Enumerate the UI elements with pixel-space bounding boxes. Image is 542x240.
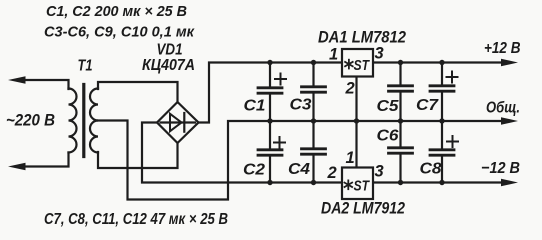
regulator DA1 asterisk bbox=[345, 60, 353, 69]
wire DA1 pin 2 to common bbox=[355, 77, 357, 122]
capacitor C6 bbox=[389, 121, 413, 183]
bridge rectifier VD1 diode bbox=[161, 113, 196, 132]
capacitor C4 bbox=[302, 121, 326, 183]
svg-text:С2: С2 bbox=[243, 162, 265, 179]
regulator DA2 box bbox=[342, 168, 373, 200]
svg-text:3: 3 bbox=[375, 163, 384, 181]
capacitor C7 bbox=[430, 63, 454, 122]
svg-text:ST: ST bbox=[354, 57, 371, 74]
svg-text:+12 В: +12 В bbox=[484, 40, 521, 57]
capacitor C5 bbox=[389, 63, 413, 122]
capacitor C1 bbox=[258, 63, 282, 122]
bridge rectifier VD1 body bbox=[157, 102, 199, 143]
svg-text:С6: С6 bbox=[377, 128, 399, 145]
wire secondary bottom lead to bridge bbox=[98, 144, 178, 169]
svg-text:3: 3 bbox=[375, 45, 384, 63]
svg-text:2: 2 bbox=[327, 164, 337, 182]
svg-text:С3: С3 bbox=[290, 97, 312, 114]
svg-text:С7, С8, С11, С12 47 мк × 25 В: С7, С8, С11, С12 47 мк × 25 В bbox=[44, 211, 228, 228]
junction dots common rail bbox=[267, 118, 444, 123]
svg-text:С7: С7 bbox=[416, 97, 439, 114]
svg-text:1: 1 bbox=[346, 149, 355, 167]
svg-text:С3-С6, С9, С10 0,1 мк: С3-С6, С9, С10 0,1 мк bbox=[44, 24, 195, 41]
ac input arrow top bbox=[8, 76, 26, 84]
capacitor C8 plus sign bbox=[447, 136, 458, 147]
junction dots top rail bbox=[267, 60, 444, 65]
capacitor C2 bbox=[258, 121, 282, 183]
capacitor C7 plus sign bbox=[447, 72, 458, 83]
svg-text:С5: С5 bbox=[377, 98, 400, 115]
svg-text:DA1 LM7812: DA1 LM7812 bbox=[318, 28, 406, 47]
wire primary top lead bbox=[24, 80, 69, 89]
svg-text:С1, С2 200 мк × 25 В: С1, С2 200 мк × 25 В bbox=[46, 3, 187, 20]
svg-text:КЦ407А: КЦ407А bbox=[142, 57, 195, 74]
wire DA2 output -12V bbox=[373, 181, 500, 183]
ac input arrow bottom bbox=[8, 163, 26, 171]
transformer T1 core bbox=[82, 85, 85, 157]
wire center tap to common rail bbox=[98, 121, 500, 200]
svg-text:VD1: VD1 bbox=[157, 42, 183, 59]
svg-text:DA2 LM7912: DA2 LM7912 bbox=[321, 199, 405, 218]
regulator DA1 box bbox=[342, 49, 373, 77]
capacitor C1 plus sign bbox=[275, 74, 286, 85]
svg-text:Общ.: Общ. bbox=[486, 100, 520, 117]
svg-text:1: 1 bbox=[329, 46, 338, 64]
junction dots bottom rail bbox=[267, 180, 444, 185]
transformer T1 primary winding bbox=[69, 89, 77, 153]
capacitor C2 plus sign bbox=[274, 137, 285, 148]
svg-text:С4: С4 bbox=[288, 161, 310, 178]
wire DA2 pin 1 to common bbox=[355, 121, 357, 168]
svg-text:С1: С1 bbox=[244, 98, 266, 115]
svg-text:−12 В: −12 В bbox=[481, 160, 520, 177]
svg-text:С8: С8 bbox=[420, 161, 442, 178]
wire bridge plus output to top rail bbox=[199, 63, 343, 123]
wire DA1 output +12V bbox=[373, 61, 500, 63]
regulator DA2 asterisk bbox=[345, 180, 353, 189]
svg-text:2: 2 bbox=[345, 80, 355, 98]
svg-text:ST: ST bbox=[354, 178, 371, 195]
wire secondary top lead to bridge bbox=[98, 82, 178, 103]
-12V output arrow bbox=[501, 179, 518, 187]
capacitor C8 bbox=[430, 121, 454, 183]
transformer T1 secondary winding bbox=[90, 89, 98, 153]
svg-text:~220 В: ~220 В bbox=[6, 111, 55, 130]
capacitor C3 bbox=[302, 63, 326, 122]
wire bridge minus output to bottom rail bbox=[142, 123, 342, 183]
common output arrow bbox=[501, 117, 518, 125]
svg-text:Т1: Т1 bbox=[78, 58, 93, 75]
+12V output arrow bbox=[501, 59, 518, 67]
wire primary bottom lead bbox=[24, 153, 69, 167]
